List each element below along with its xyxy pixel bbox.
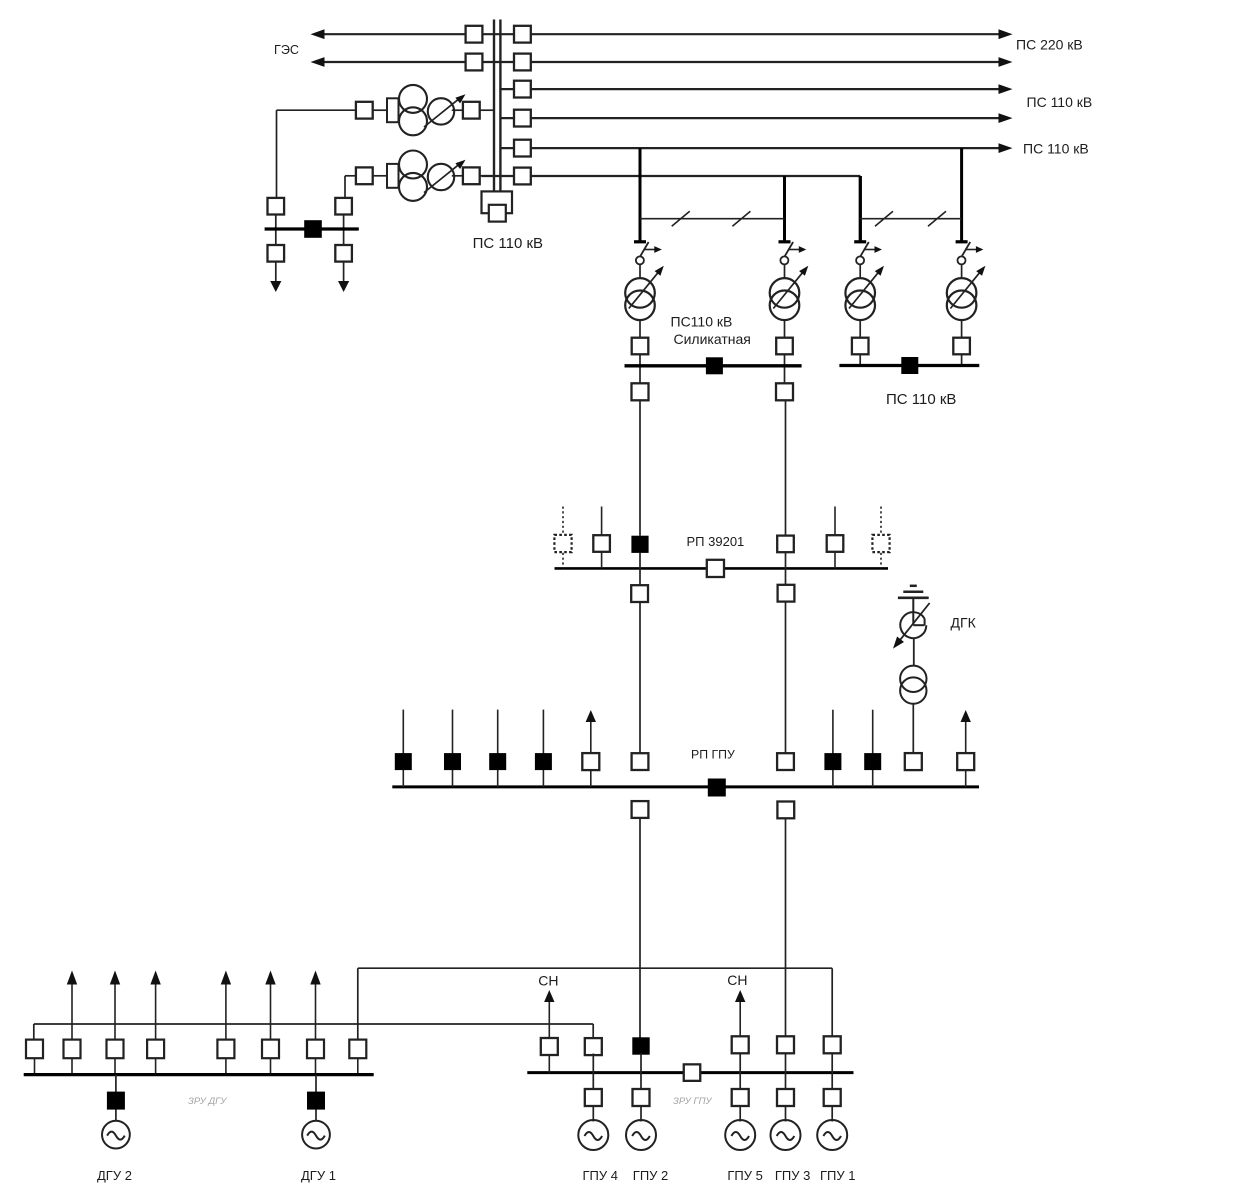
svg-text:ЗРУ ГПУ: ЗРУ ГПУ bbox=[673, 1096, 713, 1107]
svg-text:ДГК: ДГК bbox=[951, 615, 977, 631]
svg-text:ГПУ 4: ГПУ 4 bbox=[583, 1168, 618, 1183]
svg-text:ГЭС: ГЭС bbox=[274, 43, 299, 57]
svg-text:СН: СН bbox=[727, 972, 747, 988]
svg-text:ГПУ 5: ГПУ 5 bbox=[727, 1168, 762, 1183]
svg-text:ДГУ 1: ДГУ 1 bbox=[301, 1168, 336, 1183]
svg-text:ГПУ 2: ГПУ 2 bbox=[633, 1168, 668, 1183]
svg-text:ГПУ 3: ГПУ 3 bbox=[775, 1168, 810, 1183]
svg-text:ПС 110 кВ: ПС 110 кВ bbox=[473, 235, 543, 252]
svg-text:ДГУ 2: ДГУ 2 bbox=[97, 1168, 132, 1183]
svg-text:ПС 220 кВ: ПС 220 кВ bbox=[1016, 37, 1083, 53]
svg-text:ПС 110 кВ: ПС 110 кВ bbox=[1027, 94, 1093, 110]
svg-text:ПС110 кВ: ПС110 кВ bbox=[671, 313, 733, 329]
svg-text:ЗРУ ДГУ: ЗРУ ДГУ bbox=[188, 1096, 227, 1107]
svg-text:РП 39201: РП 39201 bbox=[687, 534, 745, 549]
svg-text:ГПУ 1: ГПУ 1 bbox=[820, 1168, 855, 1183]
svg-text:ПС 110 кВ: ПС 110 кВ bbox=[1023, 141, 1089, 157]
svg-text:СН: СН bbox=[538, 973, 558, 989]
svg-text:Силикатная: Силикатная bbox=[674, 331, 751, 347]
svg-text:ПС 110 кВ: ПС 110 кВ bbox=[886, 391, 956, 408]
svg-text:РП ГПУ: РП ГПУ bbox=[691, 748, 735, 762]
